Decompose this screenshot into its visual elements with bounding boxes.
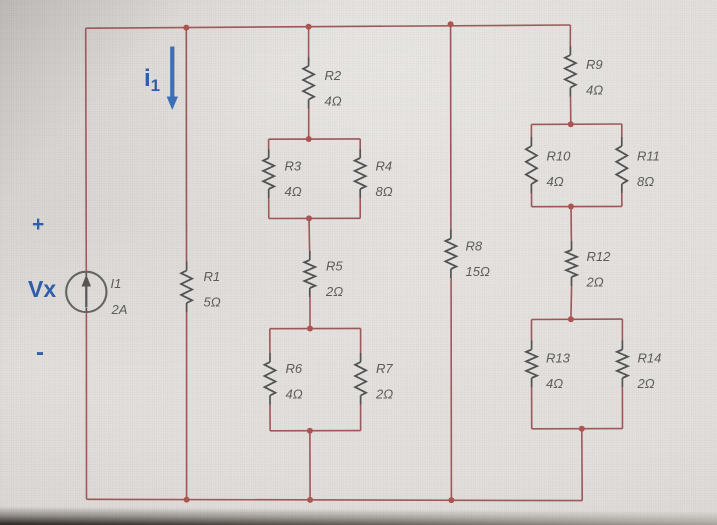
wire box3 right edge lower	[621, 193, 623, 206]
wire box1 to R5	[308, 218, 311, 251]
junction node box4 top	[568, 316, 574, 322]
svg-text:2Ω: 2Ω	[637, 376, 655, 391]
wire box4 to bottom	[581, 429, 583, 501]
junction node bottom-R8	[448, 497, 454, 503]
wire box3 to R12	[570, 207, 572, 242]
svg-text:8Ω: 8Ω	[376, 184, 393, 199]
svg-text:R8: R8	[466, 239, 483, 254]
wire box2 right edge lower	[360, 405, 362, 431]
wire box4 left edge upper	[531, 320, 533, 341]
resistor R10	[526, 137, 571, 193]
svg-text:4Ω: 4Ω	[586, 83, 603, 98]
resistor R11	[616, 137, 660, 193]
wire R8 branch lower	[450, 278, 452, 500]
wire top horizontal	[86, 25, 571, 28]
svg-text:R14: R14	[638, 351, 662, 366]
svg-text:R10: R10	[547, 149, 572, 164]
wire box2 top edge	[270, 327, 361, 329]
wire box1 left edge lower	[268, 198, 270, 219]
svg-text:R2: R2	[325, 68, 342, 83]
junction node box1 bottom	[306, 215, 312, 221]
svg-text:4Ω: 4Ω	[547, 174, 564, 189]
junction node bottom-R1	[184, 497, 190, 503]
svg-text:5Ω: 5Ω	[204, 295, 221, 310]
resistor R4	[355, 149, 393, 199]
wire branch R1 upper	[185, 28, 187, 262]
resistor R7	[355, 353, 393, 405]
junction node top-R2	[306, 24, 312, 30]
junction node box3 top	[568, 121, 574, 127]
svg-text:15Ω: 15Ω	[466, 264, 490, 279]
junction node box2 bottom	[307, 428, 313, 434]
wire left vertical upper	[85, 28, 88, 272]
svg-text:R1: R1	[204, 269, 221, 284]
wire box2 left edge upper	[269, 329, 271, 353]
svg-text:4Ω: 4Ω	[546, 376, 563, 391]
wire box3 left edge lower	[531, 193, 533, 207]
svg-text:4Ω: 4Ω	[325, 94, 342, 109]
junction node top-R8	[448, 21, 454, 27]
svg-text:2A: 2A	[111, 302, 128, 317]
label i1	[144, 65, 160, 95]
resistor R5	[304, 251, 343, 299]
wire R12 to box4	[570, 286, 573, 319]
svg-text:R6: R6	[286, 361, 303, 376]
resistor R9	[565, 46, 603, 98]
resistor R6	[265, 353, 303, 405]
svg-text:R5: R5	[326, 259, 343, 274]
wire bottom horizontal	[87, 499, 583, 500]
svg-text:i1: i1	[144, 65, 160, 95]
wire box2 bottom edge	[270, 430, 361, 432]
label Vx	[28, 276, 56, 302]
wire R5 to box2	[309, 297, 311, 329]
svg-text:R7: R7	[376, 361, 393, 376]
svg-text:-: -	[36, 339, 44, 366]
label plus	[32, 213, 44, 236]
wire box4 right edge lower	[621, 387, 623, 429]
resistor R8	[445, 230, 490, 280]
wire box1 left edge upper	[268, 139, 270, 149]
current source I1 2A	[66, 272, 127, 317]
svg-text:2Ω: 2Ω	[375, 387, 393, 402]
svg-text:R9: R9	[586, 57, 603, 72]
wire box1 right edge lower	[359, 198, 361, 218]
wire box2 to bottom	[309, 431, 311, 500]
resistor R12	[566, 241, 611, 290]
wire box3 top edge	[531, 123, 621, 125]
wire R9 to box3	[570, 97, 572, 125]
svg-text:R3: R3	[285, 159, 302, 174]
wire R8 branch upper	[450, 24, 452, 229]
wire box2 left edge lower	[269, 405, 271, 431]
svg-text:+: +	[32, 213, 44, 236]
svg-text:8Ω: 8Ω	[637, 174, 654, 189]
svg-text:2Ω: 2Ω	[586, 275, 604, 290]
current arrow i1	[167, 47, 178, 111]
resistor R1	[181, 262, 221, 313]
wire R2 to box1	[308, 109, 310, 140]
wire box4 right edge upper	[621, 319, 623, 340]
svg-text:I1: I1	[111, 276, 122, 291]
wire right branch upper	[569, 25, 571, 46]
wire branch R1 lower	[186, 312, 188, 500]
junction node box1 top	[306, 136, 312, 142]
wire box1 bottom edge	[269, 217, 360, 219]
wire box3 bottom edge	[532, 205, 622, 207]
label minus	[36, 339, 44, 366]
resistor R14	[617, 341, 661, 392]
wire box2 right edge upper	[360, 328, 362, 353]
svg-text:R11: R11	[637, 149, 660, 164]
wire box4 top edge	[532, 318, 623, 320]
wire R2 branch upper	[308, 27, 310, 57]
wire left vertical lower	[85, 312, 87, 499]
junction node bottom-mid	[307, 497, 313, 503]
wire box4 left edge lower	[531, 387, 533, 429]
resistor R13	[526, 341, 571, 392]
svg-text:Vx: Vx	[28, 276, 56, 302]
wire box1 top edge	[269, 138, 361, 140]
wire box3 right edge upper	[621, 124, 623, 137]
svg-text:2Ω: 2Ω	[325, 284, 343, 299]
wire box3 left edge upper	[530, 124, 532, 137]
resistor R3	[263, 149, 302, 199]
svg-text:R12: R12	[587, 249, 612, 264]
svg-text:4Ω: 4Ω	[286, 387, 303, 402]
svg-text:R4: R4	[376, 159, 393, 174]
svg-text:R13: R13	[546, 351, 571, 366]
junction node box2 top	[307, 326, 313, 332]
junction node top-R1	[183, 25, 189, 31]
wire box1 right edge upper	[359, 139, 361, 149]
junction node box4 bottom	[579, 426, 585, 432]
wire box4 bottom edge	[532, 428, 623, 430]
resistor R2	[303, 57, 342, 109]
svg-text:4Ω: 4Ω	[285, 184, 302, 199]
junction node box3 bottom	[568, 204, 574, 210]
